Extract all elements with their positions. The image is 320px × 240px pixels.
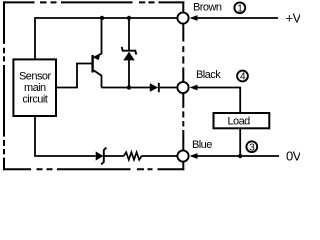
circled 4: [237, 71, 248, 83]
junction dot: emitter on rail: [100, 16, 104, 20]
collector lead (to output line): [94, 70, 102, 87]
svg-text:Sensor: Sensor: [19, 71, 51, 83]
junction dot: zener ZD1 on rail: [127, 16, 131, 20]
sensor main circuit label: [19, 71, 51, 106]
sensor enclosure dashed border: bottom edge: [3, 168, 184, 170]
svg-text:Black: Black: [196, 69, 221, 81]
load box: [214, 113, 270, 128]
sensor enclosure dashed border: top edge: [3, 1, 184, 3]
circled 3: [246, 141, 257, 153]
svg-text:Blue: Blue: [192, 139, 212, 151]
arrow: load wire into Black terminal: [190, 85, 198, 91]
junction dot: load on 0V line: [238, 154, 242, 158]
label: Black: [196, 69, 221, 81]
base bar: [91, 55, 93, 73]
label: 0V: [286, 149, 302, 164]
diode D1 (series diode on output): [150, 83, 159, 92]
wire: +V rail from sensor box top to Brown terminal: [35, 18, 177, 58]
svg-text:main: main: [24, 82, 46, 94]
wire: Black terminal to Load: [197, 88, 240, 113]
emitter lead (to +V rail): [94, 18, 102, 58]
terminal: Brown (open circle): [177, 12, 188, 23]
wire: output (black) line: [102, 87, 178, 89]
wire: internal 0V line from sensor box bottom: [35, 116, 177, 156]
base lead wire: [56, 64, 92, 88]
terminal line (right dashed border through terminals): [182, 1, 184, 170]
cathode bar with zener hooks: [122, 47, 137, 55]
transistor Q1 (PNP): [56, 18, 102, 88]
svg-text:Load: Load: [227, 116, 250, 128]
arrow: 0V wire into Blue terminal: [190, 153, 198, 159]
terminal: Black (open circle): [177, 82, 188, 93]
label: Load: [227, 116, 250, 128]
wire: Load to 0V line: [239, 129, 241, 157]
emitter arrow (PNP, points toward base): [94, 54, 101, 60]
zener diode ZD1 (clamp between rail and output): [122, 18, 137, 88]
wire: +V supply: [197, 17, 278, 19]
svg-text:+V: +V: [286, 11, 301, 26]
zener diode ZD2 (on internal 0V line): [96, 148, 107, 165]
label: Blue: [192, 139, 212, 151]
svg-text:circuit: circuit: [22, 93, 47, 105]
label: Brown: [193, 1, 222, 13]
terminal: Blue (open circle): [177, 150, 188, 161]
wire: 0V return: [197, 155, 279, 157]
sensor main circuit box: [13, 59, 56, 116]
label: +V: [286, 11, 302, 26]
arrow: +V wire into Brown terminal: [190, 15, 198, 21]
circled 1: [234, 2, 245, 14]
junction dot: zener ZD1 on output line: [127, 85, 131, 89]
svg-text:Brown: Brown: [193, 1, 222, 13]
sensor enclosure dashed border: left edge: [3, 1, 5, 170]
anode triangle: [123, 52, 134, 61]
svg-text:0V: 0V: [286, 149, 300, 164]
resistor R1: [124, 152, 142, 160]
